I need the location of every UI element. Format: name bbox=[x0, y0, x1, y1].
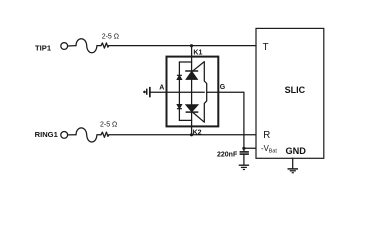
svg-text:TIP1: TIP1 bbox=[35, 43, 52, 52]
svg-text:R: R bbox=[263, 130, 270, 141]
svg-text:G: G bbox=[220, 84, 226, 91]
svg-text:220nF: 220nF bbox=[217, 152, 238, 159]
svg-text:A: A bbox=[159, 84, 164, 91]
svg-text:K1: K1 bbox=[193, 49, 202, 56]
svg-text:T: T bbox=[263, 42, 269, 53]
svg-text:GND: GND bbox=[286, 146, 307, 156]
svg-text:2-5 Ω: 2-5 Ω bbox=[102, 33, 119, 40]
svg-text:SLIC: SLIC bbox=[285, 85, 306, 95]
svg-text:RING1: RING1 bbox=[35, 130, 59, 139]
svg-text:K2: K2 bbox=[193, 129, 202, 136]
svg-text:2-5 Ω: 2-5 Ω bbox=[100, 121, 117, 128]
